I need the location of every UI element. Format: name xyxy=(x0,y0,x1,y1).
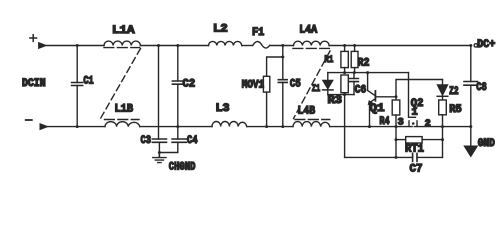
ground CHGND chassis symbol xyxy=(153,153,196,174)
svg-text:Z2: Z2 xyxy=(449,86,459,98)
capacitor C8 xyxy=(464,46,487,127)
capacitor C4 xyxy=(159,127,198,153)
wire R4/Z2 net xyxy=(396,80,443,101)
wire bottom rail segment 3 xyxy=(247,126,293,128)
fuse F1 xyxy=(252,27,270,48)
svg-text:GND: GND xyxy=(478,138,495,150)
capacitor C1 xyxy=(72,46,94,127)
wire top rail segment 3 xyxy=(242,45,253,47)
node DC+ terminal xyxy=(474,39,496,51)
svg-text:R5: R5 xyxy=(449,104,462,116)
ground GND arrow xyxy=(464,127,495,157)
wire node line corner down to Q2 gate xyxy=(409,73,416,118)
wire top rail segment 4 xyxy=(270,45,294,47)
varistor MOV1 xyxy=(242,76,270,126)
svg-text:C3: C3 xyxy=(141,135,152,147)
capacitor C6 xyxy=(350,73,367,97)
inductor L3 xyxy=(212,103,247,127)
svg-text:F1: F1 xyxy=(252,27,265,39)
svg-text:Z1: Z1 xyxy=(312,84,321,95)
wire bottom rail segment 2 xyxy=(140,126,212,128)
wire bottom rail segment 1 xyxy=(48,126,105,128)
wire C3 vertical from top rail xyxy=(158,46,160,140)
svg-text:L3: L3 xyxy=(216,103,230,115)
wire R5 net down through rail xyxy=(442,127,444,158)
svg-text:3: 3 xyxy=(398,117,404,128)
svg-text:1: 1 xyxy=(412,108,418,119)
svg-text:L1A: L1A xyxy=(112,25,135,37)
svg-text:C6: C6 xyxy=(355,85,367,97)
wire bottom rail segment 4 xyxy=(330,126,413,128)
capacitor C5 xyxy=(278,57,301,127)
wire bottom rail segment 5 xyxy=(414,126,471,128)
resistor R5 xyxy=(439,100,462,127)
svg-text:2: 2 xyxy=(425,119,431,130)
wire R3 net down to C7 rail xyxy=(344,95,346,158)
wire top rail segment 2 xyxy=(140,45,208,47)
svg-text:L4A: L4A xyxy=(299,24,317,36)
zener Z2 xyxy=(437,80,458,101)
wire Z1/R3/C6 bottom node xyxy=(328,94,354,96)
wire top rail segment 5 xyxy=(329,45,471,47)
capacitor C2 xyxy=(172,46,195,127)
svg-text:MOV1: MOV1 xyxy=(242,79,265,91)
node DCIN+ terminal xyxy=(30,35,46,49)
thermistor RT1 xyxy=(405,137,443,156)
resistor R3 xyxy=(328,75,349,107)
inductor L4B xyxy=(293,105,330,126)
svg-text:C1: C1 xyxy=(83,75,94,87)
svg-text:R4: R4 xyxy=(379,116,390,128)
wire node line xyxy=(328,72,409,74)
svg-text:DC+: DC+ xyxy=(477,39,496,51)
wire RT1 level left xyxy=(396,139,406,141)
inductor L1B xyxy=(105,104,140,127)
wire R4 net down through rail xyxy=(395,127,397,158)
svg-text:C4: C4 xyxy=(187,135,198,147)
transistor Q1 xyxy=(368,73,396,127)
svg-text:DCIN: DCIN xyxy=(22,78,46,90)
svg-text:C5: C5 xyxy=(290,78,301,90)
svg-text:C8: C8 xyxy=(476,82,487,94)
choke core L4 dashed lines xyxy=(293,48,330,119)
svg-text:RT1: RT1 xyxy=(405,144,424,156)
transistor Q2 xyxy=(398,98,431,130)
svg-text:L1B: L1B xyxy=(115,104,134,116)
wire top rail segment 1 xyxy=(46,45,104,47)
resistor R1 xyxy=(324,46,348,73)
svg-text:Q1: Q1 xyxy=(369,103,385,115)
svg-text:C7: C7 xyxy=(410,163,423,175)
inductor L1A xyxy=(104,25,140,45)
node DCIN- terminal xyxy=(26,120,48,130)
inductor L4A xyxy=(294,24,330,45)
zener Z1 xyxy=(312,73,333,96)
wire C7 level xyxy=(345,156,443,158)
choke core L4 coupling diagonal xyxy=(294,51,331,119)
svg-text:R2: R2 xyxy=(358,57,370,69)
inductor L2 xyxy=(209,24,242,46)
svg-text:L2: L2 xyxy=(213,24,228,36)
choke core L1 coupling diagonal xyxy=(101,49,141,119)
svg-text:R3: R3 xyxy=(328,95,343,107)
svg-text:R1: R1 xyxy=(324,55,333,66)
resistor R4 xyxy=(379,100,399,128)
capacitor C7 xyxy=(410,153,423,175)
resistor R2 xyxy=(351,46,369,73)
svg-text:CHGND: CHGND xyxy=(169,162,196,174)
capacitor C3 xyxy=(141,135,167,157)
wire MOV1/C5 branch from top rail xyxy=(267,46,283,77)
choke core L1 dashed lines xyxy=(104,48,140,120)
svg-text:C2: C2 xyxy=(183,79,196,91)
